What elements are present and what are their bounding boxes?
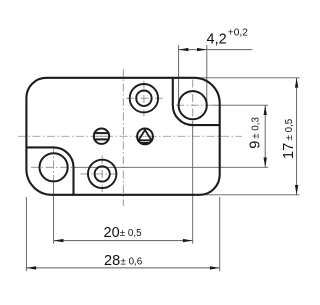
svg-text:28: 28 <box>104 253 120 269</box>
svg-text:+0,2: +0,2 <box>228 27 248 38</box>
svg-text:4,2: 4,2 <box>207 32 227 48</box>
svg-text:9: 9 <box>247 141 263 149</box>
svg-text:17: 17 <box>281 143 297 159</box>
svg-text:± 0,5: ± 0,5 <box>120 228 142 239</box>
svg-text:± 0,5: ± 0,5 <box>284 118 295 140</box>
svg-text:± 0,6: ± 0,6 <box>121 256 143 267</box>
svg-text:20: 20 <box>104 225 120 241</box>
svg-text:± 0,3: ± 0,3 <box>251 117 262 139</box>
